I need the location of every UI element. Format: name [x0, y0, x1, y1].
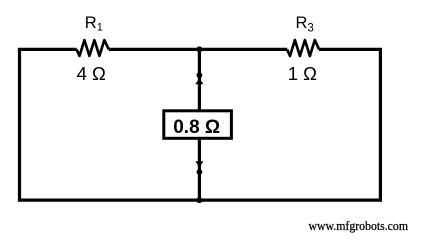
svg-text:www.mfgrobots.com: www.mfgrobots.com: [309, 219, 409, 233]
arrow down (current toward bottom node): [195, 161, 203, 167]
arrow up (current toward top node): [195, 78, 203, 84]
resistor box 0.8 ohm: [164, 111, 232, 139]
wire middle branch upper: [198, 49, 201, 111]
wire middle branch lower: [198, 138, 201, 200]
node dot above up-arrow: [197, 72, 203, 78]
wire left-bottom-right outer loop: [20, 49, 381, 200]
svg-text:1 Ω: 1 Ω: [288, 63, 317, 84]
wire top-left segment: [18, 48, 77, 51]
svg-text:4 Ω: 4 Ω: [77, 63, 106, 84]
node dot below down-arrow: [197, 169, 203, 175]
svg-text:0.8 Ω: 0.8 Ω: [173, 117, 220, 138]
resistor R3: [287, 40, 319, 56]
node top junction: [196, 46, 202, 52]
wire top-right segment: [319, 48, 382, 51]
wire top-middle segment: [109, 48, 287, 51]
node bottom junction: [196, 197, 202, 203]
resistor R1: [77, 40, 109, 56]
